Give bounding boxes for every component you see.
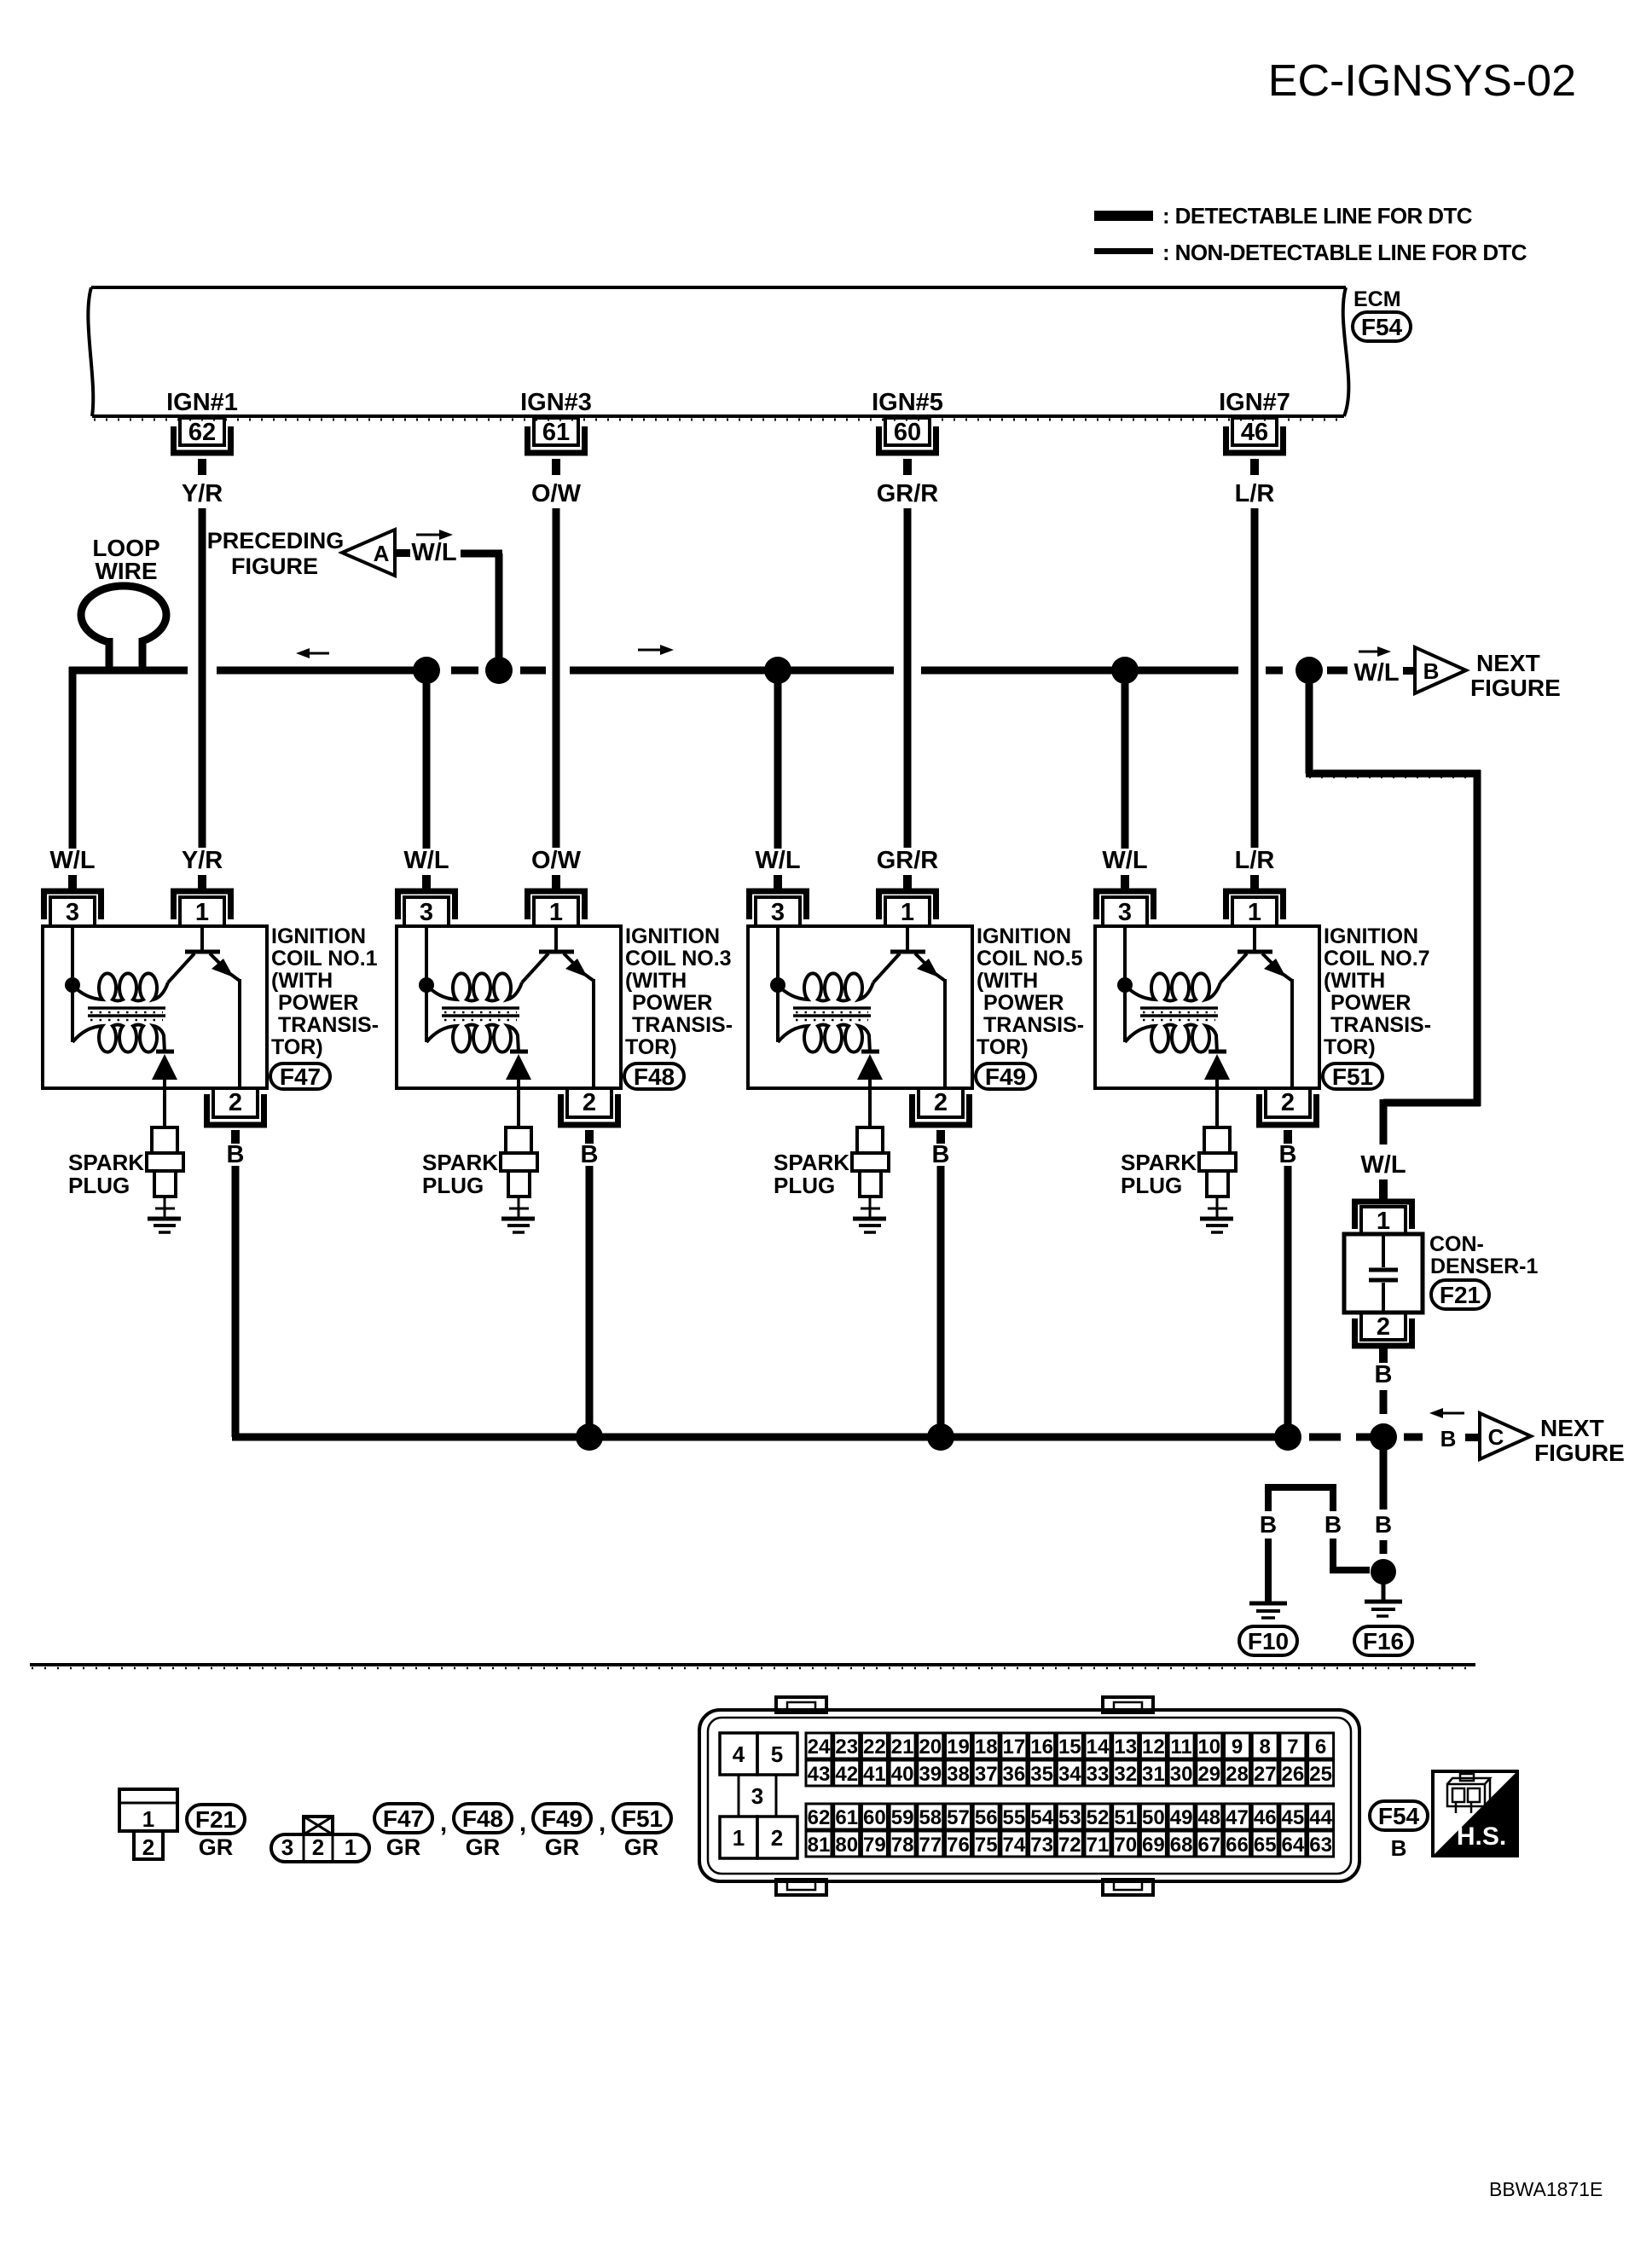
svg-text:36: 36 bbox=[1003, 1763, 1026, 1786]
svg-text:4: 4 bbox=[733, 1741, 745, 1767]
svg-text:71: 71 bbox=[1087, 1834, 1110, 1857]
svg-text:WIRE: WIRE bbox=[95, 558, 157, 584]
svg-text:F49: F49 bbox=[985, 1063, 1026, 1090]
svg-text:25: 25 bbox=[1309, 1763, 1332, 1786]
ignition coil No.3 (with power transistor) F48 bbox=[397, 670, 733, 1437]
svg-text:GR/R: GR/R bbox=[877, 480, 939, 507]
svg-text:BBWA1871E: BBWA1871E bbox=[1489, 2178, 1603, 2200]
svg-text:F47: F47 bbox=[280, 1063, 321, 1090]
svg-text:15: 15 bbox=[1058, 1736, 1081, 1759]
svg-text:27: 27 bbox=[1254, 1763, 1277, 1786]
svg-text:80: 80 bbox=[835, 1834, 858, 1857]
ground jumper bracket bbox=[1268, 1487, 1333, 1511]
svg-text:8: 8 bbox=[1260, 1736, 1271, 1759]
svg-text:F21: F21 bbox=[195, 1806, 236, 1833]
svg-text:GR: GR bbox=[466, 1834, 501, 1860]
junction node coil3 B bbox=[576, 1423, 603, 1451]
svg-text:79: 79 bbox=[863, 1834, 886, 1857]
svg-text:13: 13 bbox=[1114, 1736, 1137, 1759]
svg-text:7: 7 bbox=[1287, 1736, 1298, 1759]
svg-text:F10: F10 bbox=[1248, 1628, 1289, 1654]
W/L bus wire bbox=[69, 667, 188, 675]
svg-text:3: 3 bbox=[281, 1834, 293, 1860]
wire B to node bbox=[1330, 1539, 1336, 1570]
svg-text:GR/R: GR/R bbox=[877, 847, 939, 874]
separator line bbox=[30, 1663, 1475, 1666]
svg-text:10: 10 bbox=[1197, 1736, 1220, 1759]
svg-text:55: 55 bbox=[1003, 1806, 1026, 1829]
svg-text:24: 24 bbox=[808, 1736, 831, 1759]
svg-text:PRECEDING: PRECEDING bbox=[207, 528, 345, 553]
svg-text:GR: GR bbox=[624, 1834, 659, 1860]
wire W/L to condenser bbox=[1306, 670, 1313, 774]
svg-text:W/L: W/L bbox=[1353, 659, 1399, 687]
svg-text:B: B bbox=[1375, 1511, 1392, 1538]
svg-text:COIL NO.7: COIL NO.7 bbox=[1324, 947, 1430, 971]
svg-text:IGN#7: IGN#7 bbox=[1219, 389, 1290, 416]
svg-text:C: C bbox=[1488, 1424, 1504, 1450]
svg-text:29: 29 bbox=[1197, 1763, 1220, 1786]
condenser-1 F21 bbox=[1379, 1179, 1388, 1199]
svg-text:GR: GR bbox=[199, 1834, 234, 1860]
svg-text:O/W: O/W bbox=[531, 847, 582, 874]
svg-text:59: 59 bbox=[891, 1806, 914, 1829]
svg-text:74: 74 bbox=[1003, 1834, 1026, 1857]
svg-text:67: 67 bbox=[1197, 1834, 1220, 1857]
svg-text:30: 30 bbox=[1170, 1763, 1193, 1786]
svg-text:CON-: CON- bbox=[1429, 1232, 1484, 1256]
connector F47 bbox=[374, 1804, 432, 1833]
B bus wire bbox=[232, 1434, 1288, 1441]
svg-text:: NON-DETECTABLE LINE FOR DTC: : NON-DETECTABLE LINE FOR DTC bbox=[1162, 240, 1527, 265]
svg-text:46: 46 bbox=[1241, 419, 1268, 446]
svg-text:61: 61 bbox=[835, 1806, 858, 1829]
svg-text:L/R: L/R bbox=[1235, 847, 1275, 874]
legend: detectable line for DTC bbox=[1094, 211, 1153, 221]
svg-text:41: 41 bbox=[863, 1763, 886, 1786]
svg-text:B: B bbox=[1440, 1426, 1457, 1452]
svg-text:L/R: L/R bbox=[1235, 480, 1275, 507]
svg-text:60: 60 bbox=[894, 419, 921, 446]
wire B to ground F10 bbox=[1265, 1539, 1272, 1602]
svg-text:42: 42 bbox=[835, 1763, 858, 1786]
svg-text:2: 2 bbox=[312, 1834, 324, 1860]
ECM connector view (F54) bbox=[776, 1697, 826, 1712]
svg-text:GR: GR bbox=[386, 1834, 421, 1860]
svg-text:20: 20 bbox=[919, 1736, 942, 1759]
bus direction arrows bbox=[310, 652, 329, 655]
svg-text:81: 81 bbox=[808, 1834, 831, 1857]
svg-text:,: , bbox=[599, 1809, 606, 1837]
svg-text:2: 2 bbox=[1377, 1313, 1390, 1341]
svg-text:52: 52 bbox=[1087, 1806, 1110, 1829]
svg-text:16: 16 bbox=[1030, 1736, 1053, 1759]
svg-text:IGN#1: IGN#1 bbox=[166, 389, 238, 416]
svg-text:COIL NO.5: COIL NO.5 bbox=[977, 947, 1083, 971]
svg-text:70: 70 bbox=[1114, 1834, 1137, 1857]
svg-text:68: 68 bbox=[1170, 1834, 1193, 1857]
junction node condenser W/L branch bbox=[1296, 657, 1323, 684]
connector F54 bbox=[1370, 1801, 1428, 1830]
svg-text:H.S.: H.S. bbox=[1457, 1822, 1506, 1851]
wire GR/R from ECM pin 60 bbox=[904, 508, 912, 848]
svg-text:B: B bbox=[1375, 1361, 1393, 1388]
svg-text:IGN#3: IGN#3 bbox=[520, 389, 592, 416]
svg-text:F16: F16 bbox=[1363, 1628, 1404, 1654]
svg-text:11: 11 bbox=[1170, 1736, 1191, 1759]
svg-text:19: 19 bbox=[947, 1736, 970, 1759]
connector F48 bbox=[454, 1804, 512, 1833]
svg-text:64: 64 bbox=[1282, 1834, 1305, 1857]
svg-text:W/L: W/L bbox=[411, 539, 456, 566]
svg-text:72: 72 bbox=[1058, 1834, 1081, 1857]
next figure reference B bbox=[1359, 651, 1377, 653]
svg-text:1: 1 bbox=[142, 1806, 154, 1832]
wire L/R from ECM pin 46 bbox=[1251, 508, 1259, 848]
svg-text:53: 53 bbox=[1058, 1806, 1081, 1829]
svg-text:IGN#5: IGN#5 bbox=[872, 389, 943, 416]
svg-text:44: 44 bbox=[1309, 1806, 1332, 1829]
ECM box (torn band) bbox=[91, 286, 1346, 289]
svg-text:31: 31 bbox=[1142, 1763, 1165, 1786]
connector F49 bbox=[533, 1804, 591, 1833]
svg-text:18: 18 bbox=[975, 1736, 998, 1759]
svg-text:21: 21 bbox=[891, 1736, 914, 1759]
svg-text:FIGURE: FIGURE bbox=[1470, 675, 1561, 701]
wire W/L from A to bus bbox=[461, 550, 502, 558]
junction node coil7 B bbox=[1274, 1423, 1301, 1451]
svg-text:65: 65 bbox=[1254, 1834, 1277, 1857]
ignition coil No.5 (with power transistor) F49 bbox=[748, 670, 1084, 1437]
connector F21 bbox=[187, 1805, 245, 1834]
svg-text:,: , bbox=[440, 1809, 447, 1837]
svg-text:F48: F48 bbox=[634, 1063, 675, 1090]
svg-text:61: 61 bbox=[542, 419, 570, 446]
svg-text:66: 66 bbox=[1226, 1834, 1249, 1857]
svg-text:,: , bbox=[519, 1809, 526, 1837]
condenser connector view (1/2) bbox=[119, 1789, 177, 1831]
svg-text:32: 32 bbox=[1114, 1763, 1137, 1786]
svg-text:F21: F21 bbox=[1440, 1282, 1481, 1308]
svg-text:40: 40 bbox=[891, 1763, 914, 1786]
svg-text:F48: F48 bbox=[462, 1805, 503, 1832]
svg-text:B: B bbox=[1324, 1511, 1342, 1538]
ground F16 bbox=[1365, 1600, 1402, 1604]
svg-text:35: 35 bbox=[1030, 1763, 1053, 1786]
junction node coil3 W/L bbox=[413, 657, 440, 684]
svg-text:12: 12 bbox=[1142, 1736, 1165, 1759]
svg-text:ECM: ECM bbox=[1353, 287, 1401, 311]
svg-text:50: 50 bbox=[1142, 1806, 1165, 1829]
svg-text:57: 57 bbox=[947, 1806, 970, 1829]
svg-text:5: 5 bbox=[771, 1741, 783, 1767]
svg-text:56: 56 bbox=[975, 1806, 998, 1829]
svg-text:1: 1 bbox=[345, 1834, 356, 1860]
svg-text:O/W: O/W bbox=[531, 480, 582, 507]
svg-text:49: 49 bbox=[1170, 1806, 1193, 1829]
svg-text:A: A bbox=[374, 541, 390, 566]
junction node condenser B bbox=[1370, 1423, 1397, 1451]
svg-text:37: 37 bbox=[975, 1763, 998, 1786]
svg-text:47: 47 bbox=[1226, 1806, 1249, 1829]
junction node A riser bbox=[485, 657, 513, 684]
svg-text:B: B bbox=[1423, 658, 1440, 684]
svg-text:Y/R: Y/R bbox=[182, 847, 223, 874]
svg-text:39: 39 bbox=[919, 1763, 942, 1786]
svg-text:33: 33 bbox=[1087, 1763, 1110, 1786]
svg-text:DENSER-1: DENSER-1 bbox=[1430, 1255, 1539, 1278]
ignition coil No.1 (with power transistor) F47 bbox=[43, 670, 379, 1437]
svg-text:75: 75 bbox=[975, 1834, 998, 1857]
junction node ground bbox=[1371, 1559, 1396, 1585]
ECM connector F54 bbox=[1353, 312, 1411, 341]
junction node coil5 B bbox=[927, 1423, 954, 1451]
svg-text:COIL NO.3: COIL NO.3 bbox=[625, 947, 732, 971]
svg-text:F54: F54 bbox=[1361, 314, 1403, 340]
svg-text:2: 2 bbox=[142, 1834, 154, 1860]
next figure reference C bbox=[1404, 1434, 1423, 1441]
svg-text:F49: F49 bbox=[542, 1805, 583, 1832]
coil connector view (3 2 1) bbox=[304, 1817, 333, 1834]
svg-text:B: B bbox=[1391, 1835, 1407, 1861]
svg-text:48: 48 bbox=[1197, 1806, 1220, 1829]
svg-text:34: 34 bbox=[1058, 1763, 1081, 1786]
svg-text:17: 17 bbox=[1003, 1736, 1026, 1759]
svg-text:9: 9 bbox=[1232, 1736, 1243, 1759]
junction node coil7 W/L bbox=[1111, 657, 1139, 684]
svg-text:F54: F54 bbox=[1378, 1803, 1420, 1829]
svg-text:14: 14 bbox=[1087, 1736, 1110, 1759]
svg-text:45: 45 bbox=[1282, 1806, 1305, 1829]
ground F10 bbox=[1249, 1602, 1287, 1606]
svg-text:FIGURE: FIGURE bbox=[1534, 1440, 1625, 1466]
svg-text:22: 22 bbox=[863, 1736, 886, 1759]
svg-text:F51: F51 bbox=[622, 1805, 663, 1832]
svg-text:NEXT: NEXT bbox=[1540, 1415, 1604, 1441]
svg-text:26: 26 bbox=[1282, 1763, 1305, 1786]
svg-text:78: 78 bbox=[891, 1834, 914, 1857]
svg-text:6: 6 bbox=[1315, 1736, 1326, 1759]
connector F51 bbox=[613, 1804, 671, 1833]
svg-text:: DETECTABLE LINE FOR DTC: : DETECTABLE LINE FOR DTC bbox=[1162, 203, 1473, 229]
svg-text:2: 2 bbox=[771, 1825, 783, 1851]
svg-text:60: 60 bbox=[863, 1806, 886, 1829]
svg-text:F47: F47 bbox=[383, 1805, 424, 1832]
svg-text:EC-IGNSYS-02: EC-IGNSYS-02 bbox=[1268, 56, 1576, 106]
svg-text:B: B bbox=[1260, 1511, 1277, 1538]
junction node coil5 W/L bbox=[764, 657, 791, 684]
svg-text:77: 77 bbox=[919, 1834, 942, 1857]
ignition coil No.7 (with power transistor) F51 bbox=[1095, 670, 1431, 1437]
svg-text:62: 62 bbox=[188, 419, 216, 446]
svg-text:W/L: W/L bbox=[1360, 1151, 1406, 1179]
wire Y/R from ECM pin 62 bbox=[199, 508, 206, 848]
svg-text:COIL NO.1: COIL NO.1 bbox=[271, 947, 378, 971]
svg-text:1: 1 bbox=[1377, 1208, 1390, 1235]
svg-text:3: 3 bbox=[751, 1783, 763, 1809]
svg-text:76: 76 bbox=[947, 1834, 970, 1857]
svg-text:Y/R: Y/R bbox=[182, 480, 223, 507]
svg-text:23: 23 bbox=[835, 1736, 858, 1759]
svg-text:28: 28 bbox=[1226, 1763, 1249, 1786]
svg-text:58: 58 bbox=[919, 1806, 942, 1829]
svg-text:GR: GR bbox=[545, 1834, 580, 1860]
svg-text:38: 38 bbox=[947, 1763, 970, 1786]
svg-text:63: 63 bbox=[1309, 1834, 1332, 1857]
H.S. harness symbol bbox=[1433, 1771, 1517, 1856]
ECM connector pin grid bbox=[806, 1733, 832, 1759]
svg-text:NEXT: NEXT bbox=[1476, 650, 1540, 676]
wire O/W from ECM pin 61 bbox=[553, 508, 560, 848]
legend: non-detectable line for DTC bbox=[1094, 248, 1153, 254]
wire B condenser to ground node bbox=[1380, 1449, 1388, 1510]
svg-text:46: 46 bbox=[1254, 1806, 1277, 1829]
svg-text:73: 73 bbox=[1030, 1834, 1053, 1857]
svg-text:51: 51 bbox=[1114, 1806, 1137, 1829]
svg-text:FIGURE: FIGURE bbox=[231, 553, 318, 579]
svg-text:1: 1 bbox=[733, 1825, 745, 1851]
svg-text:54: 54 bbox=[1030, 1806, 1053, 1829]
svg-text:43: 43 bbox=[808, 1763, 831, 1786]
svg-text:62: 62 bbox=[808, 1806, 831, 1829]
svg-text:F51: F51 bbox=[1332, 1063, 1373, 1090]
svg-text:69: 69 bbox=[1142, 1834, 1165, 1857]
